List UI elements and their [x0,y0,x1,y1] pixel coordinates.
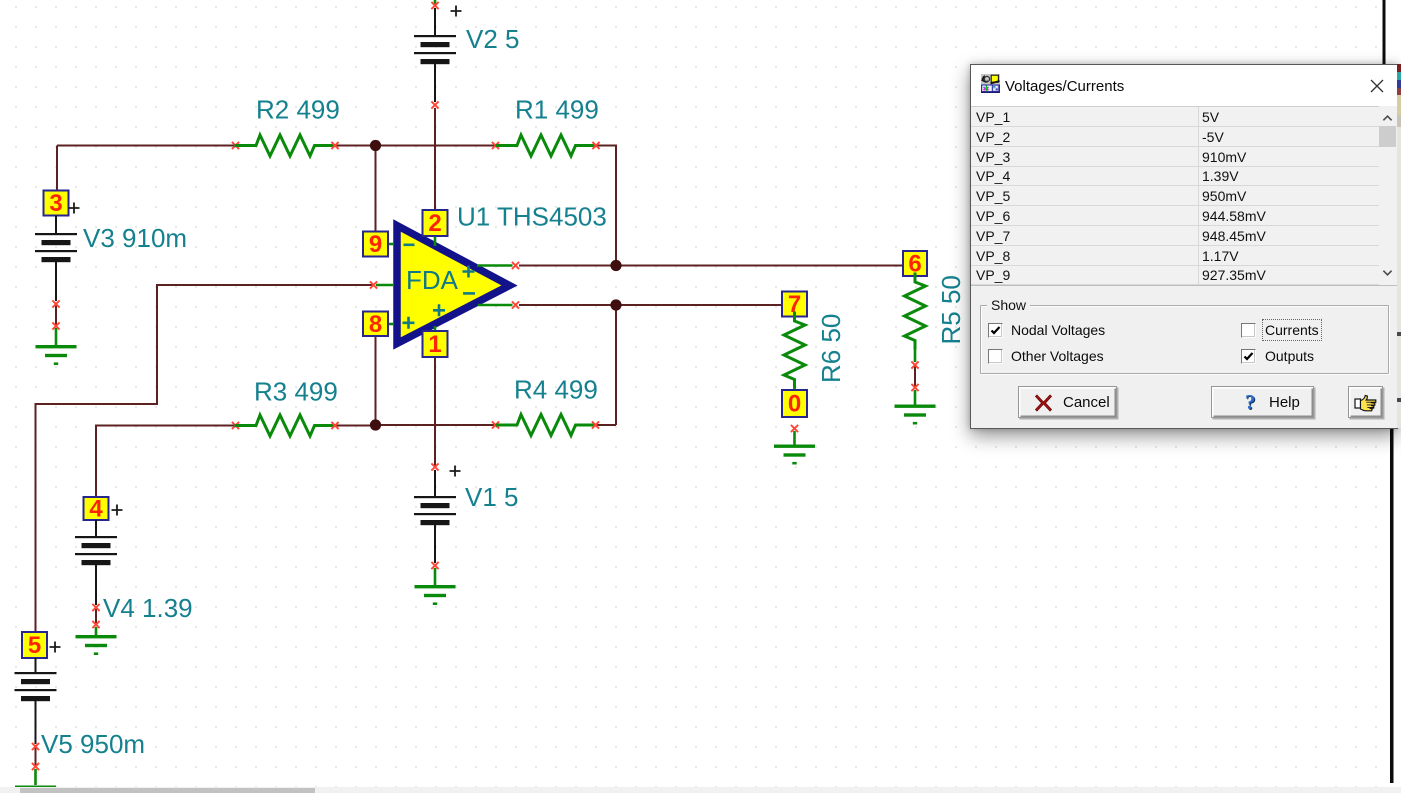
wire U1 out- lead [478,304,513,307]
terminal x R2 left [232,142,239,149]
node 5 [22,632,47,659]
terminal x R5 bottom terminal [911,361,918,368]
polarity plus V5 [50,642,61,653]
wire R2-R1 mid segment [335,145,496,147]
terminal x R5 ground terminal [911,384,918,391]
wire junction to R3 right [335,425,376,427]
wire R5 top lead [914,276,917,281]
terminal x V1 minus terminal [431,562,438,569]
battery V4 bottom lead [95,565,97,605]
wire U1 pin 9 stub [387,243,394,246]
polarity plus V3 [69,203,80,214]
schematic sheet border (top right) [1383,0,1386,64]
wire R1 right to out+ vertical [597,146,616,266]
U1 plus mark (out+) [463,266,475,278]
ground for V4 [76,635,117,655]
dialog table [971,106,1379,286]
node 0 [782,390,807,418]
resistor R6 [784,313,805,387]
wire R6 top lead [793,317,796,322]
svg-text:V3 910m: V3 910m [83,223,187,253]
wire FDA mid input to node 5 [36,285,373,632]
ground for V5 [15,786,56,793]
svg-text:R3 499: R3 499 [254,377,338,407]
wire out- vertical down [615,305,617,425]
terminal x U1 out+ [512,262,519,269]
wire U1 pin 1 stub [434,326,437,331]
wire V5 ground lead [34,769,37,785]
node 3 [44,190,69,217]
wire U1 pin 2 stub [434,236,437,246]
wire R5 ground lead [914,390,917,405]
Show group box [980,305,1389,374]
terminal x V1 plus terminal [431,463,438,470]
battery V3 bottom lead [55,262,57,301]
terminal x R4 left [492,421,499,428]
junction out- node [610,299,621,310]
battery V2 top lead [434,8,436,36]
terminal x R4 right [592,421,599,428]
Help button [1211,386,1314,418]
svg-text:9: 9 [369,231,382,258]
junction out+ node [610,260,621,271]
resistor R5 [905,274,926,348]
wire R3 left down to node 4 [96,426,236,498]
wire V1 ground lead [434,568,437,585]
battery V5 [15,672,57,701]
svg-text:R1 499: R1 499 [515,95,599,125]
polarity plus V2 [451,6,462,17]
wire R5 bottom lead [914,340,917,362]
battery V1 [414,496,456,525]
node 1 (V- supply pin) [423,331,448,358]
battery V1 top lead [434,470,436,497]
wire node 1 down to V1 [434,357,436,467]
polarity plus V4 [112,505,123,516]
wire out- to node 7 [519,304,782,306]
terminal x V2 minus terminal [431,101,438,108]
wire U1 mid input stub [376,284,394,287]
forward (hand) button [1348,386,1383,418]
terminal x V3 ground terminal [52,322,59,329]
terminal x V5 minus terminal [32,743,39,750]
resistor R2 [236,135,334,156]
ground for V3 [36,345,77,365]
node 4 [84,496,109,523]
dialog title bar [971,65,1397,106]
terminal x U1 out- [512,301,519,308]
svg-text:V2 5: V2 5 [466,24,520,54]
BOTTOM SCROLLBAR [0,787,1401,793]
terminal x V4 ground terminal [92,621,99,628]
wire net3 top-left horizontal [57,145,236,147]
resistor R4 [497,415,595,436]
battery V4 [75,536,117,565]
svg-text:8: 8 [369,311,382,338]
wire U1 pin 8 stub [387,323,394,326]
resistor R1 [497,135,595,156]
terminal x V4 minus terminal [92,604,99,611]
terminal x U1 mid input [370,281,377,288]
battery V5 bottom lead [35,701,37,744]
off-page white area (right of sheet border, top) [1386,0,1401,64]
terminal x R1 left [492,142,499,149]
wire R6 bottom lead [793,379,796,390]
wire junction down to node 9 [375,146,377,232]
battery V2 [414,35,456,64]
svg-text:FDA: FDA [406,265,459,295]
schematic sheet border (bottom right) [1390,428,1394,783]
resistor R3 [236,415,334,436]
wire node 0 ground lead [793,431,796,445]
wire to R4 right [597,424,616,426]
battery V4 top lead [95,520,97,537]
ground for V1 [415,585,456,605]
svg-text:R6 50: R6 50 [816,314,846,383]
battery V2 bottom lead [434,64,436,102]
terminal x R2 right [331,142,338,149]
svg-text:R5 50: R5 50 [936,275,966,344]
node 8 (non-inverting input) [363,311,388,338]
polarity plus V1 [450,466,461,477]
sliver of window behind dialog (right edge) [1397,64,1401,428]
svg-text:3: 3 [49,190,62,217]
ground for node 0 [774,445,815,465]
svg-text:V4 1.39: V4 1.39 [103,593,193,623]
terminal x R3 right [331,422,338,429]
wire R4 left to junction [376,424,496,426]
svg-text:U1 THS4503: U1 THS4503 [457,202,607,232]
wire V2 minus to node 2 [434,108,436,210]
battery V5 top lead [35,658,37,673]
U1 minus mark (out-) [463,292,475,295]
wire V4 ground lead [95,627,98,635]
svg-text:2: 2 [428,210,441,237]
wire V2 top stub [434,0,437,4]
wire node 8 down to junction [375,336,377,425]
junction A (R2/R1/node9) [370,140,381,151]
svg-text:1: 1 [428,331,441,358]
wire V4 minus stub [95,608,97,624]
junction B (R3/R4/node8) [370,419,381,430]
wire R5 bottom stub [914,366,916,387]
U1 plus mark (bottom centre) [433,304,445,316]
off-page white area (right of sheet border, bottom) [1394,428,1401,793]
node 7 [782,291,807,318]
svg-text:V1 5: V1 5 [465,482,519,512]
U1 plus mark (pin 8 input) [403,317,415,329]
terminal x V5 ground terminal [32,763,39,770]
ground for R5 [895,405,936,425]
node 6 [903,251,927,278]
battery V3 [35,233,77,262]
terminal x R3 left [232,422,239,429]
svg-text:R4 499: R4 499 [514,375,598,405]
wire out+ to node 6 [519,265,903,267]
terminal x node 0 ground terminal [791,425,798,432]
wire V3 minus stub [55,305,57,325]
battery V3 top lead [55,216,57,235]
svg-text:V5 950m: V5 950m [41,729,145,759]
terminal x V2 plus terminal [431,2,438,9]
wire V5 minus stub [35,747,37,766]
wire net3 down to node 3 [56,146,58,191]
svg-text:4: 4 [89,496,103,523]
wire U1 out+ lead [477,264,513,267]
U1 minus mark (pin 9 input) [404,244,415,247]
op-amp U1 FDA body [397,226,510,344]
svg-text:R2 499: R2 499 [256,95,340,125]
svg-text:5: 5 [28,632,41,659]
wire V3 ground lead [55,328,58,345]
node 9 (inverting input) [363,231,388,258]
Cancel button [1018,386,1117,418]
battery V1 bottom lead [434,525,436,563]
terminal x R1 right [592,142,599,149]
terminal x V3 minus terminal [52,300,59,307]
svg-text:0: 0 [788,391,801,418]
node 2 (V+ supply pin) [423,210,448,237]
